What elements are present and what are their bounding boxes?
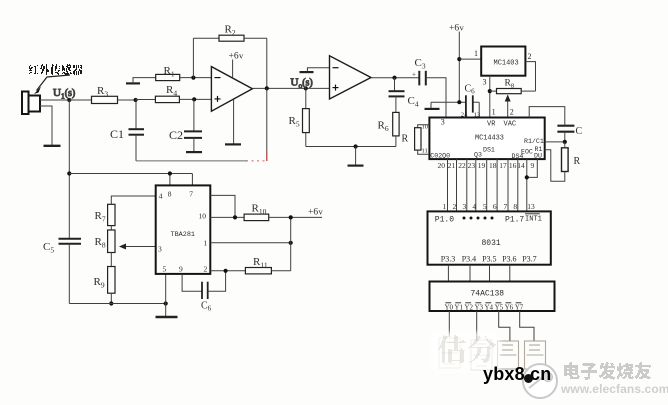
node output2	[392, 76, 396, 80]
+6v label right	[308, 207, 324, 218]
node R9 bottom	[109, 301, 113, 305]
node minus input	[191, 76, 195, 80]
node U1(s)	[67, 98, 71, 102]
node pin1/rail	[289, 241, 293, 245]
node R1/C1	[563, 140, 567, 144]
ground (sensor)	[44, 145, 61, 147]
wire to MC1403 pin 1	[459, 49, 481, 59]
IC TBA281	[156, 185, 211, 274]
node pin9	[525, 175, 529, 179]
resistor R6	[378, 112, 400, 146]
logo circle	[522, 363, 558, 399]
wire R1/C1 pin	[545, 141, 565, 143]
ground rail amp2	[306, 144, 396, 165]
capacitor C6 top	[461, 84, 481, 119]
wires 74AC138 to displays	[449, 311, 534, 341]
ground op-amp1	[225, 100, 241, 145]
node R8 left	[488, 89, 492, 93]
node output1	[265, 86, 269, 90]
sensor IR detector body	[22, 92, 40, 115]
op-amp U1	[211, 67, 252, 112]
pin9 wire to C6	[182, 274, 202, 291]
capacitor C1	[110, 100, 144, 161]
left rail wire	[68, 100, 70, 238]
feedback wire down (red remnant)	[246, 88, 267, 161]
display DS2 digit	[471, 340, 492, 370]
displays (7-segment, faint)	[439, 338, 546, 370]
resistor R2 feedback	[193, 24, 266, 89]
right resistor R	[545, 142, 581, 181]
node C6 left	[457, 100, 461, 104]
node top wire TBA	[67, 171, 71, 175]
capacitor C6 bottom	[201, 282, 212, 313]
node R10/+6v	[289, 215, 293, 219]
capacitor C4	[389, 78, 419, 113]
display DS3 digit	[498, 341, 519, 369]
wire node to R4	[136, 99, 156, 101]
pin5 ground	[156, 274, 178, 317]
display DS1 digit	[439, 338, 460, 368]
+6v supply op-amp1	[229, 51, 245, 79]
MC1403 pin 2 wire	[525, 52, 535, 91]
resistor R3	[69, 85, 135, 104]
resistor R1	[156, 65, 212, 81]
resistor R7	[95, 196, 156, 230]
pin 9 jog wire	[527, 159, 538, 177]
sensor ground wire	[40, 106, 52, 145]
resistor R10	[244, 203, 322, 221]
IC 74AC138	[430, 282, 555, 312]
wire sensor to node	[40, 99, 69, 101]
watermark blobs left	[430, 332, 500, 372]
capacitor C2	[169, 99, 202, 151]
+6v rail top right	[449, 23, 465, 103]
wire op-amp1 output	[252, 87, 329, 89]
MC1403 pin 3 wire to VR	[483, 76, 490, 118]
pin10 wire + L-wire	[210, 195, 244, 219]
capacitor C5	[43, 239, 81, 304]
IC MC1403	[481, 47, 525, 76]
resistor R4	[155, 84, 211, 103]
node plus input	[192, 97, 196, 101]
wire op-amp2 output	[371, 77, 419, 79]
bottom rail TBA	[69, 303, 165, 305]
node pin5 rail	[164, 301, 168, 305]
R8 wiper arrow to VAC	[492, 96, 514, 118]
pin2 wire	[208, 269, 246, 292]
ground (near pin3)	[425, 102, 440, 109]
leader arrow to sensor	[34, 75, 70, 94]
node +6v / MC1403 pin1	[457, 57, 461, 61]
display DS4 digit	[525, 341, 546, 369]
pin numbers row under MC14433	[438, 161, 535, 170]
IC MC14433	[429, 118, 544, 160]
potentiometer R8	[95, 230, 156, 267]
capacitor C3	[412, 57, 446, 102]
MC14433 bottom pin lines	[448, 159, 527, 211]
op-amp U2	[330, 56, 372, 99]
resistor R11	[245, 256, 290, 274]
ground (C2)	[186, 151, 202, 153]
potentiometer R8 top	[490, 79, 536, 94]
wire C3 net to pin3 MC14433	[431, 102, 479, 117]
ground left of R1	[126, 78, 156, 84]
node Uo	[304, 86, 308, 90]
label 红外传感器	[29, 64, 82, 75]
TBA top wire pins 8,7	[69, 171, 192, 185]
right cap C	[529, 107, 582, 142]
resistor R5	[289, 88, 310, 146]
MC14433 left pins 10/11 resistor R	[402, 124, 430, 155]
pin numbers row above 8031	[443, 202, 536, 211]
right +6v rail	[290, 217, 292, 270]
node after R3	[134, 98, 138, 102]
watermark ybx8.cn	[483, 364, 551, 385]
feedback wire bottom	[136, 160, 247, 162]
resistor R9	[94, 267, 116, 304]
pin1 wire	[210, 242, 290, 244]
ground bias op-amp2 minus	[300, 68, 330, 72]
wires 8031 to 74AC138	[448, 265, 509, 282]
IC 8031	[428, 211, 551, 264]
